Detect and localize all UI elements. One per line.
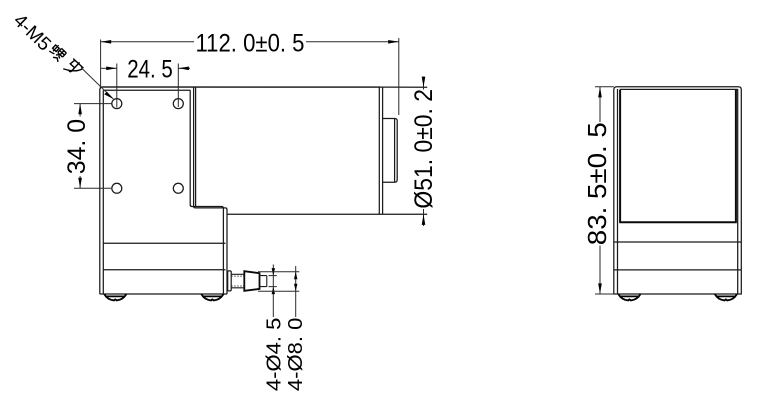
housing top inner line [620, 88, 738, 90]
svg-text:112. 0±0. 5: 112. 0±0. 5 [196, 29, 305, 57]
right foot of right view [715, 294, 737, 300]
housing lower line 1 [614, 241, 742, 243]
left foot of left view [104, 294, 126, 300]
mounting hole bottom-right [173, 183, 183, 193]
dimension 24.5 [101, 64, 190, 108]
housing inner right line [737, 89, 739, 294]
svg-text:34. 0: 34. 0 [63, 119, 91, 174]
housing outer rectangle [614, 87, 742, 294]
svg-text:4-M5: 4-M5 [9, 10, 55, 55]
connector nut [244, 271, 259, 291]
barb tip [260, 276, 267, 287]
motor top edge + phi51 top extension [100, 86, 427, 88]
pump box top line [103, 242, 225, 244]
mounting hole bottom-left [112, 183, 122, 193]
svg-text:Ø51. 0±0. 2: Ø51. 0±0. 2 [410, 89, 438, 209]
motor right face inner line [382, 87, 384, 214]
dimension 4-phi4.5 [269, 265, 277, 318]
mounting hole top-left [112, 99, 122, 109]
svg-text:24. 5: 24. 5 [127, 56, 173, 84]
bracket right edge outer line + step outer [194, 87, 227, 294]
bracket plate outer profile (left view) [100, 87, 381, 294]
bracket top inner line [103, 89, 190, 91]
bracket plate inner left edge [102, 90, 104, 294]
CJK glyph ya (tooth/thread) [63, 57, 84, 78]
thread lines (dashed) [231, 276, 244, 286]
leader line for 4-M5 thread note [81, 68, 113, 99]
motor face inner rectangle [619, 90, 737, 222]
RIGHT VIEW [614, 87, 742, 294]
bracket right edge inner line + step to box [190, 90, 223, 294]
motor front face line [195, 87, 197, 206]
dimension 34.0 [74, 104, 112, 189]
pump box mid line [103, 269, 225, 271]
housing lower line 2 [614, 269, 742, 271]
motor right face outer line [378, 87, 380, 214]
dimension 4-phi8.0 [258, 266, 299, 317]
motor rear boss (protrusion) [383, 119, 398, 183]
motor bottom edge + phi51 bottom extension [227, 213, 427, 215]
left foot of right view [618, 294, 640, 300]
mounting hole top-right [173, 99, 183, 109]
svg-text:83. 5±0. 5: 83. 5±0. 5 [584, 122, 612, 245]
CJK glyph luo (screw) [48, 43, 67, 62]
svg-text:4-Ø8. 0: 4-Ø8. 0 [284, 318, 307, 391]
right foot of left view [201, 294, 223, 300]
hose connector washer flange [228, 271, 245, 291]
threaded nipple outline [231, 274, 244, 288]
boss inner right line [394, 119, 396, 182]
dimension phi51.0±0.2 [423, 77, 425, 227]
housing inner left line [617, 89, 619, 294]
dimension 112.0±0.5 [101, 38, 399, 115]
svg-text:4-Ø4. 5: 4-Ø4. 5 [262, 318, 285, 391]
pump box bottom edge [100, 293, 227, 295]
note text 4-M5 [9, 10, 55, 55]
dimension 83.5±0.5 [595, 87, 614, 294]
